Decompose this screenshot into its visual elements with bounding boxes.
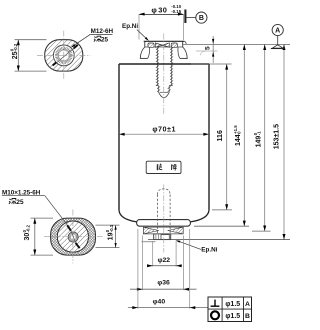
cylinder-top extension line (right) [191, 63, 232, 65]
label M10x1.25-6H depth 25 with leader [2, 190, 45, 206]
dimension 144 +1.5/0 [194, 44, 249, 226]
datum A flag [271, 24, 285, 48]
bottom detail: leader diagonal through hole [45, 196, 80, 249]
bottom detail: boss outline (30-0.2) crosshatched [51, 218, 96, 255]
label Ep.Ni (bottom cap) with leader [176, 240, 218, 253]
svg-text:25: 25 [12, 51, 19, 59]
svg-text:B: B [199, 15, 204, 22]
dimension 116 [212, 64, 232, 210]
svg-text:φ: φ [151, 5, 157, 14]
cylinder bottom curves [119, 210, 209, 222]
dimension phi70+-1 inside body [119, 124, 209, 135]
dimension 5 (cap step) + extension lines [182, 36, 290, 63]
gray mark under stub left [142, 241, 156, 243]
dimension phi40 (leads to tolerance frame) [128, 229, 208, 309]
dimension 149 0/-1 [252, 44, 271, 231]
top detail: thread circles M12 [53, 45, 74, 66]
dimension phi30 -0.10/-0.15 (top cap) [139, 4, 184, 40]
M12 threaded hole in section (top) [156, 47, 173, 98]
svg-text:144: 144 [235, 134, 242, 146]
geometric tolerance frame [208, 297, 252, 322]
porcelain cylinder body phi70 [119, 64, 209, 210]
svg-text:30: 30 [158, 5, 167, 14]
main view vertical centerline (top) [163, 34, 165, 115]
nameplate box [146, 161, 181, 173]
svg-text:A: A [275, 28, 280, 35]
svg-text:-0.1: -0.1 [109, 224, 114, 232]
dimension 25 -0.2 (left of top detail) [9, 40, 46, 71]
svg-text:149: 149 [255, 136, 262, 148]
svg-text:-1: -1 [257, 131, 262, 135]
svg-text:30: 30 [24, 233, 31, 241]
bottom detail: inner circle hatched [56, 220, 90, 254]
svg-text:φ22: φ22 [158, 257, 171, 264]
top cap bell skirt [140, 47, 188, 58]
perpendicularity symbol [211, 300, 220, 307]
top detail: leader diagonal through hole [53, 45, 78, 66]
svg-text:-0.2: -0.2 [25, 224, 30, 232]
dimension 19 -0.1 (right of bottom detail) [96, 224, 120, 247]
dimension phi22 [147, 241, 182, 267]
row2 phi1.5 B [225, 313, 250, 320]
bottom detail: M10 thread hole [68, 232, 78, 242]
dimension 30 -0.2 (left of bottom detail) [22, 218, 53, 255]
svg-text:25: 25 [101, 37, 109, 44]
top detail: cap boss outline (25-0.2 across flats) [45, 40, 83, 71]
svg-text:-0.2: -0.2 [13, 43, 18, 51]
svg-text:φ1.5: φ1.5 [225, 301, 240, 308]
svg-text:φ36: φ36 [157, 279, 170, 286]
dimension phi36 [130, 236, 197, 291]
bottom stub with hidden hole end [154, 234, 171, 240]
svg-text:116: 116 [217, 130, 224, 141]
main view vertical centerline (bottom) [163, 185, 165, 253]
bottom detail: centerlines [44, 210, 103, 264]
dimension 153 +-1.5 [273, 44, 285, 239]
svg-text:Ep.Ni: Ep.Ni [201, 246, 217, 253]
M10 hidden threaded hole (dashed) [158, 189, 171, 234]
svg-text:25: 25 [16, 199, 24, 206]
top cap section pockets and bowtie [148, 43, 178, 47]
svg-text:5: 5 [204, 46, 211, 50]
svg-text:-0.15: -0.15 [171, 9, 181, 14]
svg-text:B: B [245, 313, 250, 320]
bottom cap washer band + bowties [143, 227, 183, 234]
concentricity symbol [211, 311, 219, 319]
label M12-6H depth 25 with leader [71, 28, 114, 47]
bottom cap flange capsule phi40 [137, 220, 191, 227]
datum B flag [185, 10, 207, 24]
top detail: centerlines [37, 31, 91, 81]
row1 phi1.5 A [225, 301, 250, 308]
svg-text:153±1.5: 153±1.5 [273, 124, 280, 149]
svg-text:φ40: φ40 [153, 298, 166, 305]
svg-text:19: 19 [108, 232, 115, 240]
bottom face extension line (overall length datum) [148, 239, 290, 241]
svg-text:Ep.Ni: Ep.Ni [122, 23, 138, 30]
svg-text:A: A [245, 301, 250, 308]
svg-text:φ1.5: φ1.5 [225, 313, 240, 320]
label Ep.Ni (top cap) with leader [122, 23, 149, 41]
svg-text:φ70±1: φ70±1 [152, 124, 176, 133]
top cap body [144, 41, 187, 47]
